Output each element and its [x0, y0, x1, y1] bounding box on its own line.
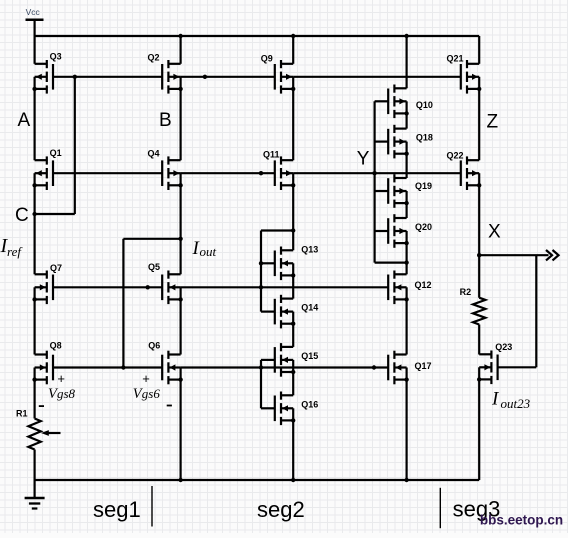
svg-text:Q18: Q18 — [416, 132, 433, 142]
wire: Q14 source to Q15 drain — [292, 324, 294, 347]
transistor Q17 — [388, 351, 431, 385]
transistor Q9 — [261, 54, 296, 94]
wire: Q15 gate stub — [261, 359, 275, 361]
svg-text:Q9: Q9 — [261, 54, 273, 64]
svg-text:Q10: Q10 — [416, 100, 433, 110]
wire: Q11 source to Q13 drain — [292, 185, 294, 250]
transistor Q6 — [148, 341, 183, 385]
wire: Q7 source to Q8 drain — [33, 299, 35, 354]
svg-text:Q2: Q2 — [148, 53, 160, 63]
wire: Q15/Q16 gate branch vertical — [260, 360, 262, 408]
junction Y branch to column — [404, 260, 408, 264]
svg-text:out23: out23 — [501, 396, 531, 411]
junction I_out branch — [178, 237, 182, 241]
svg-text:C: C — [15, 205, 29, 226]
svg-text:B: B — [159, 110, 172, 131]
transistor Q21 — [447, 54, 482, 94]
wire: I_out branch horizontal — [123, 238, 180, 240]
svg-text:Q12: Q12 — [415, 280, 432, 290]
transistor Q4 — [148, 149, 183, 191]
wire: node X output horizontal — [479, 254, 548, 256]
svg-text:Vcc: Vcc — [26, 7, 41, 17]
junction gate row 3 to Q13 gate branch — [259, 285, 263, 289]
transistor Q18 — [388, 125, 433, 159]
transistor Q7 — [32, 263, 62, 304]
label I_out — [192, 238, 217, 259]
svg-text:Q22: Q22 — [447, 151, 464, 161]
resistor R2 — [460, 287, 486, 325]
transistor Q3 — [32, 52, 61, 94]
wire: Q4 source to Q5 drain (I_out node) — [180, 185, 182, 274]
label Vgs6 with polarity — [133, 371, 172, 406]
wire: Q23 gate stub — [498, 366, 537, 368]
wire: gate row 1 Q9-Q21 — [293, 76, 461, 78]
svg-text:Q20: Q20 — [415, 222, 432, 232]
transistor Q11 — [263, 150, 295, 191]
label I_ref — [0, 235, 23, 259]
wire: Q10 source to Q18 drain — [406, 113, 408, 128]
wire: Q23 gate feedback vertical — [535, 255, 537, 367]
junction Q11 gate pin — [259, 171, 263, 175]
svg-text:Z: Z — [487, 112, 499, 133]
junction on top rail (Q2 drain) — [178, 34, 182, 38]
svg-text:R1: R1 — [16, 409, 28, 419]
wire: Q18 gate stub — [375, 141, 389, 143]
junction bottom rail at Q6 — [178, 478, 182, 482]
junction Q13 gate pin — [259, 261, 263, 265]
wire: Q18 source to Q19 drain — [406, 154, 408, 178]
wire: Q22 source to R2 top (node X) — [478, 185, 480, 297]
segment separator 1 — [151, 486, 153, 527]
power symbol Vcc — [26, 7, 44, 36]
wire: Q5 source to Q6 drain — [180, 299, 182, 354]
svg-text:gs8: gs8 — [57, 386, 76, 401]
wire: Q16 gate stub — [261, 407, 275, 409]
wire: Q19 source to Q20 drain — [406, 203, 408, 218]
wire: gate row 1 Q3-Q2 — [53, 76, 162, 78]
wire: R1 bottom to ground — [33, 450, 35, 499]
transistor Q5 — [148, 262, 183, 304]
resistor R1 (variable) — [16, 409, 61, 450]
wire: gate row 1 Q2-Q9 — [181, 76, 275, 78]
transistor Q22 — [447, 151, 482, 191]
wire: Q17 source to bottom rail — [406, 380, 408, 480]
svg-text:Q13: Q13 — [301, 244, 318, 254]
label Vgs8 with polarity — [39, 371, 76, 407]
wire: gate row 3 Q7-Q5 — [53, 286, 162, 288]
transistor Q15 — [275, 343, 318, 377]
wire: gate row 2 Q4-Q11 — [181, 172, 275, 174]
svg-text:Q3: Q3 — [50, 52, 62, 62]
wire: Q13 source to Q14 drain — [292, 275, 294, 298]
svg-text:+: + — [142, 371, 150, 386]
junction on top rail (Q10 drain) — [404, 34, 408, 38]
wire: node C horizontal — [35, 213, 75, 215]
transistor Q12 — [388, 271, 431, 305]
junction gate row 2 to Y branch — [372, 171, 376, 175]
junction Q13 gate loop — [291, 228, 295, 232]
wire: Vcc top rail — [35, 35, 480, 37]
svg-text:bbs.eetop.cn: bbs.eetop.cn — [480, 513, 563, 528]
wire: rail to Q3 drain — [33, 36, 35, 64]
svg-text:seg1: seg1 — [93, 497, 141, 522]
svg-text:+: + — [57, 371, 65, 386]
svg-text:gs6: gs6 — [142, 386, 161, 401]
wire: Q6 source to bottom rail — [180, 380, 182, 480]
transistor Q13 — [275, 244, 318, 280]
wire: gate row 4 Q8-Q6 — [53, 366, 162, 368]
wire: Q13 drain-gate loop horizontal — [261, 229, 293, 231]
wire: node Y gate bus vertical — [374, 101, 376, 262]
wire: Q12 source to Q17 drain — [406, 299, 408, 354]
junction Q3 gate to C branch — [73, 75, 77, 79]
svg-text:Q14: Q14 — [301, 303, 318, 313]
wire: Q15 source to Q16 drain — [292, 372, 294, 395]
transistor Q2 — [148, 53, 183, 94]
transistor Q19 — [388, 174, 432, 208]
junction node C — [32, 212, 36, 216]
junction node X output — [477, 253, 481, 257]
svg-text:R2: R2 — [460, 287, 472, 297]
svg-text:Q1: Q1 — [50, 148, 62, 158]
svg-text:ref: ref — [7, 244, 23, 259]
wire: Q1 source to Q7 drain (node C) — [33, 185, 35, 274]
junction bottom rail at Q17 — [404, 478, 408, 482]
wire: Q8 source to R1 top — [33, 380, 35, 419]
wire: Q19 gate stub — [375, 190, 389, 192]
wire: Q3 source to Q1 drain (node A) — [33, 89, 35, 160]
wire: Q20 gate stub — [375, 230, 389, 232]
wire: node C riser to Q3 gate — [74, 77, 76, 214]
wire: Q10 gate stub — [375, 100, 389, 102]
junction bottom rail at Q16 — [291, 478, 295, 482]
wire: rail to Q2 drain — [180, 36, 182, 64]
svg-text:Q4: Q4 — [148, 149, 160, 159]
svg-text:Q15: Q15 — [301, 351, 318, 361]
transistor Q16 — [275, 392, 318, 426]
svg-text:Q16: Q16 — [301, 400, 318, 410]
wire: Q23 source to bottom rail corner — [478, 379, 480, 480]
svg-text:Q11: Q11 — [263, 150, 280, 160]
wire: Q13 gate stub — [261, 262, 275, 264]
svg-text:Q19: Q19 — [415, 181, 432, 191]
transistor Q14 — [275, 295, 318, 329]
svg-text:Q17: Q17 — [415, 361, 432, 371]
svg-text:Q8: Q8 — [50, 341, 62, 351]
junction gate row 1 — [203, 75, 207, 79]
transistor Q1 — [32, 148, 61, 190]
junction on top rail (Q9 drain) — [291, 34, 295, 38]
wire: gate row 2 Q11-Q22 — [293, 172, 461, 174]
svg-text:Q6: Q6 — [148, 341, 160, 351]
wire: bottom ground rail — [35, 479, 480, 481]
segment separator 2 — [439, 488, 441, 528]
wire: Q21 source to Q22 drain (node Z) — [478, 89, 480, 160]
label I_out23 — [491, 389, 531, 412]
svg-text:seg2: seg2 — [257, 497, 305, 522]
transistor Q10 — [388, 85, 433, 119]
svg-text:Q23: Q23 — [495, 342, 512, 352]
wire: rail corner to Q21 drain — [478, 36, 480, 64]
wire: Q20 source to Q12 drain — [406, 243, 408, 274]
svg-text:Q21: Q21 — [447, 54, 464, 64]
wire: R2 bottom to Q23 drain — [478, 325, 480, 355]
wire: gate row 3 Q5-Q12 — [181, 286, 389, 288]
svg-text:A: A — [18, 110, 31, 131]
wire: Y bus to column 4 — [375, 262, 407, 264]
svg-text:X: X — [488, 222, 501, 243]
wire: rail to Q10 drain — [406, 36, 408, 88]
junction Q17 gate pin — [372, 365, 376, 369]
output arrow chevrons — [546, 250, 559, 260]
wire: Q14 gate stub — [261, 311, 275, 313]
svg-text:Y: Y — [357, 149, 370, 170]
wire: Q2 source to Q4 drain (node B) — [180, 89, 182, 160]
junction Q5 gate pin — [146, 285, 150, 289]
wire: Q13/Q14 gate branch vertical — [260, 231, 262, 312]
svg-text:Q5: Q5 — [148, 262, 160, 272]
svg-text:Q7: Q7 — [50, 263, 62, 273]
wire: Q16 source to bottom rail — [292, 420, 294, 480]
transistor Q8 — [32, 341, 61, 385]
wire: Q9 source to Q11 drain — [292, 89, 294, 160]
transistor Q23 — [477, 342, 512, 384]
transistor Q20 — [388, 214, 432, 248]
wire: I_out branch riser to gate row 4 — [122, 239, 124, 368]
wire: gate row 4 Q6-Q17 — [181, 366, 389, 368]
wire: gate row 2 Q1-Q4 — [53, 172, 162, 174]
junction gate row 4 to Q15/Q16 gate branch — [259, 365, 263, 369]
svg-text:out: out — [200, 244, 217, 259]
wire: rail to Q9 drain — [292, 36, 294, 64]
junction gate row 4 to I_out branch — [121, 365, 125, 369]
ground symbol — [25, 498, 45, 509]
